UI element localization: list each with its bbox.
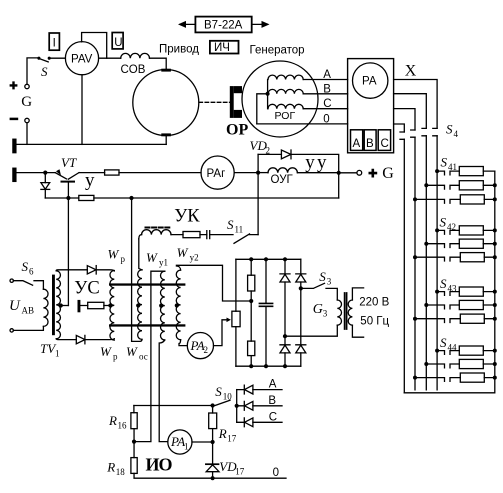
svg-text:ИО: ИО [146, 455, 173, 475]
svg-text:G: G [313, 302, 323, 317]
svg-text:УС: УС [74, 279, 99, 299]
svg-text:U: U [9, 298, 21, 314]
svg-text:G: G [21, 94, 32, 110]
svg-text:18: 18 [116, 467, 126, 477]
svg-text:РАг: РАг [207, 168, 226, 180]
svg-text:42: 42 [447, 222, 456, 232]
svg-text:S: S [440, 215, 447, 230]
svg-text:В: В [323, 84, 331, 96]
svg-text:РОГ: РОГ [275, 110, 296, 122]
svg-text:S: S [446, 122, 453, 137]
svg-text:220 В: 220 В [359, 297, 389, 309]
svg-text:АВ: АВ [22, 306, 35, 316]
svg-text:44: 44 [448, 343, 458, 353]
svg-text:6: 6 [29, 267, 34, 277]
svg-text:W: W [100, 344, 112, 359]
svg-text:1: 1 [55, 349, 60, 359]
svg-text:I: I [53, 38, 56, 50]
svg-text:0: 0 [323, 114, 329, 126]
svg-text:R: R [108, 413, 117, 428]
svg-text:17: 17 [235, 467, 245, 477]
svg-text:4: 4 [454, 129, 459, 139]
svg-text:S: S [227, 217, 234, 232]
svg-text:16: 16 [118, 421, 128, 431]
svg-text:43: 43 [448, 284, 458, 294]
svg-text:р: р [113, 352, 118, 362]
svg-text:S: S [441, 155, 448, 170]
svg-text:3: 3 [327, 277, 332, 287]
svg-text:PAV: PAV [71, 54, 93, 66]
svg-text:УК: УК [174, 207, 200, 227]
svg-text:у2: у2 [190, 253, 199, 263]
svg-text:S: S [41, 64, 48, 79]
svg-text:С: С [269, 412, 277, 424]
svg-text:U: U [114, 37, 122, 49]
svg-text:R: R [106, 460, 115, 475]
svg-text:р: р [121, 254, 126, 264]
svg-text:W: W [146, 250, 158, 265]
svg-text:X: X [405, 63, 417, 80]
svg-text:3: 3 [323, 309, 328, 319]
svg-text:PA: PA [190, 338, 205, 353]
svg-text:COB: COB [121, 64, 146, 76]
svg-text:S: S [440, 335, 447, 350]
svg-text:S: S [319, 269, 326, 284]
svg-text:41: 41 [448, 162, 457, 172]
svg-text:у1: у1 [159, 258, 168, 268]
svg-text:B7-22A: B7-22A [204, 20, 243, 32]
svg-text:ИЧ: ИЧ [214, 42, 230, 54]
svg-text:50 Гц: 50 Гц [360, 316, 389, 328]
svg-text:S: S [440, 276, 447, 291]
svg-text:А: А [269, 379, 277, 391]
svg-text:10: 10 [223, 392, 233, 402]
svg-text:у: у [85, 170, 95, 191]
svg-text:S: S [22, 259, 29, 274]
svg-text:11: 11 [235, 225, 244, 235]
svg-text:уу: уу [305, 152, 328, 173]
svg-text:В: В [366, 138, 374, 150]
svg-text:ОР: ОР [226, 122, 248, 139]
svg-text:В: В [268, 395, 276, 407]
svg-text:Генератор: Генератор [250, 45, 305, 57]
svg-text:ОУГ: ОУГ [271, 174, 294, 186]
svg-text:PA: PA [170, 434, 185, 449]
svg-text:С: С [323, 98, 331, 110]
svg-text:VT: VT [61, 155, 77, 170]
svg-text:W: W [108, 247, 120, 262]
svg-text:2: 2 [204, 345, 209, 355]
svg-text:РА: РА [362, 76, 377, 88]
svg-text:С: С [381, 138, 389, 150]
svg-text:W: W [126, 344, 138, 359]
svg-text:Привод: Привод [159, 44, 199, 56]
svg-text:S: S [215, 384, 222, 399]
svg-text:1: 1 [184, 442, 189, 452]
svg-text:R: R [218, 426, 227, 441]
svg-text:А: А [353, 138, 361, 150]
svg-text:17: 17 [227, 434, 237, 444]
svg-text:А: А [323, 69, 331, 81]
svg-text:ос: ос [139, 352, 148, 362]
svg-text:2: 2 [266, 146, 271, 156]
svg-text:G: G [382, 165, 394, 182]
svg-text:W: W [177, 245, 189, 260]
svg-text:0: 0 [273, 467, 279, 479]
